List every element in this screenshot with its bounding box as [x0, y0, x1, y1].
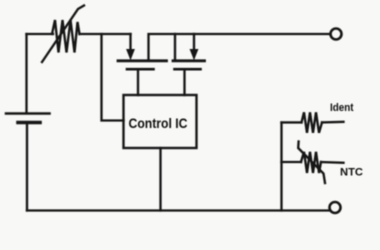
svg-text:Control IC: Control IC [129, 115, 188, 131]
transistor Q1 arrow head [127, 50, 134, 60]
transistor Q2 arrow head [190, 50, 197, 60]
terminal bottom right [330, 202, 341, 213]
transistor Q1 channel bar [118, 59, 167, 62]
wire battery negative lead down [26, 123, 28, 211]
wire Ident branch left [282, 121, 302, 123]
resistor R1 arrow [42, 6, 84, 63]
battery B1 short plate [18, 121, 40, 125]
wire Q1 gate lead to Control IC [137, 70, 139, 95]
svg-text:NTC: NTC [340, 167, 363, 179]
wire Q2 right lead arrow stem [193, 34, 195, 50]
resistor R1 variable zigzag [52, 20, 80, 53]
wire Control IC left input [102, 34, 124, 121]
wire NTC branch left [282, 161, 302, 163]
wire bottom rail [27, 209, 329, 211]
svg-text:Ident: Ident [330, 102, 354, 114]
wire battery positive lead up to top rail [25, 34, 27, 113]
wire Q2 left lead [174, 34, 176, 60]
resistor NTC zigzag [301, 152, 321, 173]
Control IC box U1 [124, 95, 197, 148]
battery B1 long plate [6, 112, 50, 115]
wire Q2 gate lead to Control IC [183, 70, 185, 95]
transistor Q2 channel bar [173, 59, 205, 62]
wire top rail left segment to resistor [27, 33, 54, 35]
wire NTC branch right [321, 161, 344, 164]
wire right bus vertical [280, 123, 282, 211]
transistor Q2 gate bar [175, 68, 201, 71]
transistor Q1 gate bar [127, 68, 154, 71]
wire Q1 left lead with arrow stem [129, 34, 131, 51]
wire Ident branch right [322, 121, 344, 124]
resistor NTC thermistor mark [298, 142, 325, 184]
wire top rail from resistor to Q1 drop [80, 33, 131, 35]
wire Control IC bottom lead [159, 148, 161, 211]
wire top rail right segment [149, 34, 331, 60]
terminal top right [331, 29, 342, 40]
resistor Ident zigzag [302, 112, 323, 133]
